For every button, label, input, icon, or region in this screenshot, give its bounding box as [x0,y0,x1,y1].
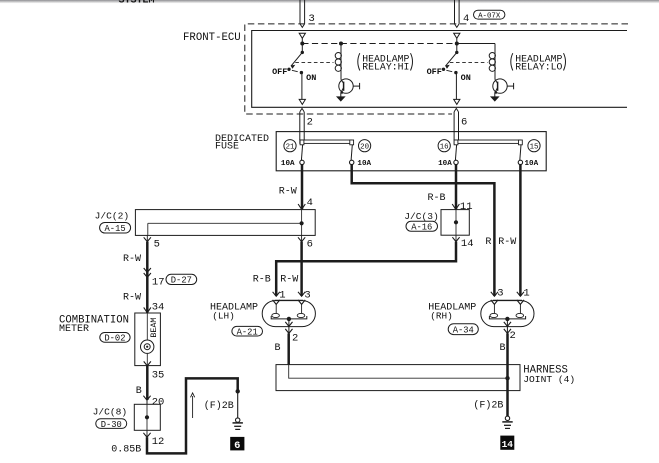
wire 6 ECU to fuse box (double line) [454,108,458,112]
svg-text:3: 3 [304,290,310,302]
svg-text:2: 2 [307,116,313,128]
svg-text:R-B: R-B [428,193,446,204]
fuse 15 10A [519,140,523,145]
inline connector 17 (D-27) double chevron [144,268,151,272]
connector label A-34 [448,324,478,335]
junction dot on internal rail [455,42,459,46]
wire R-B J/C(3) pin14 to headlamp LH pin1 [276,242,456,296]
fuse bus bar left (fuses 21-20) [300,140,352,143]
relay coil [340,44,342,80]
bulb bottom rail [489,316,525,319]
high-beam indicator lamp [141,340,154,353]
relay HEADLAMP RELAY:HI [272,33,412,104]
headlamp LH [262,292,315,354]
svg-text:FRONT-ECU: FRONT-ECU [183,32,241,44]
svg-text:D-02: D-02 [104,334,125,344]
ON contact [454,71,457,74]
fuse number circle 16 [438,140,450,152]
bulb top rail [275,299,304,301]
svg-text:J/C(3): J/C(3) [404,211,439,222]
fuse number circle 20 [359,140,371,152]
FRONT-ECU outer dashed box [245,24,628,114]
svg-text:(LH): (LH) [212,311,235,322]
switch output to terminal [301,73,303,100]
svg-text:6: 6 [461,116,467,128]
mechanical link to coil (dashed) [295,61,333,63]
wire R-W J/C(2) pin5 down [146,242,149,313]
junction dot at ground 6 drop [236,389,240,393]
current direction arrow [192,396,194,418]
switch output to terminal [455,73,457,100]
svg-text:4: 4 [463,13,469,25]
pin 35 exit chevron [144,361,151,366]
bulb bottom rail [271,316,307,319]
svg-text:15: 15 [530,143,539,151]
svg-text:(F)2B: (F)2B [473,400,503,412]
transistor [339,79,353,93]
switch pivot [456,44,458,53]
junction connector J/C(8) box [134,404,160,430]
filament right [301,304,303,313]
COMBINATION METER box [135,313,161,366]
svg-text:OFF: OFF [272,67,287,77]
svg-text:R-W: R-W [123,293,141,304]
svg-text:1: 1 [279,290,285,302]
wire R-B fuse16 to J/C(3) pin11 [455,165,458,210]
svg-text:METER: METER [59,324,89,335]
wire 3 from top (double line) [299,0,301,24]
connector label A-21 [232,326,263,336]
fuse 16 10A [454,140,458,145]
filament right [519,304,521,313]
harness joint internal wire [289,365,508,379]
svg-text:ON: ON [306,73,316,83]
junction connector J/C(3) box [441,210,469,236]
svg-text:ON: ON [461,73,471,83]
pin 34 entry chevron [144,307,151,312]
svg-text:J/C(8): J/C(8) [93,407,128,418]
connector label A-16 [406,221,438,231]
svg-text:3: 3 [497,288,503,300]
wire B meter to J/C(8) [146,366,149,400]
headlamp RH [481,292,534,354]
bulb common junction dot [287,317,291,321]
fuse number circle 15 [528,140,540,152]
fuse 20 10A [350,140,354,145]
svg-text:10A: 10A [357,160,371,168]
J/C(3) internal wire [455,210,457,236]
svg-text:14: 14 [461,238,474,250]
bulb common junction dot [505,317,509,321]
svg-text:J/C(2): J/C(2) [95,210,130,221]
relay output terminal (open triangle) [454,99,460,104]
connector label D-02 [100,333,130,343]
svg-text:A-15: A-15 [105,224,126,234]
svg-text:20: 20 [360,143,369,151]
connector label A-15 [100,223,131,234]
svg-text:B: B [136,386,142,397]
svg-text:10A: 10A [438,160,452,168]
svg-text:4: 4 [307,197,313,209]
wire R-W fuse15 to headlamp RH pin1 [519,165,522,296]
filament left [493,304,495,313]
RH pin 3 entry chevrons [491,292,498,297]
LH pin 3 entry chevrons [298,292,305,297]
svg-text:3: 3 [309,13,315,25]
svg-text:6: 6 [307,238,313,250]
svg-text:34: 34 [152,301,165,313]
bulb top rail [493,299,522,301]
ground number box 6 [230,437,244,451]
svg-text:D-30: D-30 [101,420,122,430]
svg-text:(RH): (RH) [430,311,453,322]
svg-text:16: 16 [440,143,449,151]
svg-text:10A: 10A [281,160,295,168]
pin 12 exit chevron [146,430,148,437]
transistor emitter to ground [340,93,342,97]
svg-text:D-27: D-27 [171,276,192,286]
svg-text:17: 17 [152,277,165,289]
harness joint junction dot [505,376,509,380]
wire 2 ECU to fuse box (double line) [300,108,304,112]
svg-text:14: 14 [502,439,514,450]
svg-text:RELAY:HI: RELAY:HI [362,61,409,72]
pin 11 entry chevron [452,204,459,209]
DEDICATED FUSE box [276,132,546,171]
svg-text:20: 20 [152,396,165,408]
filament left [275,304,277,313]
J/C(3) junction dot [454,220,458,224]
svg-text:SYSTEM: SYSTEM [119,0,155,6]
svg-text:R: R [485,237,491,248]
svg-text:2: 2 [292,332,298,344]
transistor base lead [353,85,359,87]
link dash between OFF and ON [446,70,452,71]
pin 5 exit chevron [146,235,148,241]
svg-text:35: 35 [152,369,165,381]
connector label D-30 [96,419,127,429]
LH pin 1 entry chevrons [273,292,280,297]
pin 2 exit chevrons [288,319,290,333]
transistor base lead [507,85,513,87]
FRONT-ECU inner solid box [252,31,627,108]
relay RELAY:HI input terminal (open triangle) [299,33,305,38]
headlamp RH bulb outline [481,301,534,327]
relay RELAY:LO input terminal (open triangle) [454,33,460,38]
junction dot on internal rail [300,42,304,46]
rail solid segment to LO relay coil [457,43,495,45]
fuse bus bar right (fuses 16-15) [454,140,520,143]
switch arm (points to OFF) [446,52,457,66]
svg-text:B: B [275,343,281,354]
wire 4 from top (double line) [454,0,456,24]
svg-text:5: 5 [154,238,160,250]
svg-text:R-W: R-W [498,237,516,248]
svg-text:A-21: A-21 [237,327,258,337]
svg-text:2: 2 [510,330,516,342]
svg-text:10A: 10A [525,160,539,168]
ground symbol 6 [236,418,240,422]
svg-text:A-16: A-16 [411,222,432,232]
pin 6 exit chevron [301,235,303,241]
ground (filled triangle) [337,97,345,101]
switch pivot [301,44,303,53]
wire B headlamp LH pin2 to harness joint [287,333,290,365]
svg-text:FUSE: FUSE [215,142,239,153]
meter internal wire out [146,353,148,365]
wire R fuse20 to headlamp RH pin3 [352,165,495,296]
svg-text:12: 12 [152,436,165,448]
svg-text:BEAM: BEAM [149,318,159,338]
switch arm (points to OFF) [291,52,302,66]
fuse number circle 21 [284,140,296,152]
internal rail (dash-dot) joining both relay feeds [302,43,457,45]
mechanical link to coil (dashed) [450,61,488,63]
svg-text:R-W: R-W [279,186,297,197]
svg-text:B: B [500,343,506,354]
junction dot at HI coil [339,42,343,46]
J/C(2) junction dot [300,221,304,225]
wire R-W J/C(2) pin6 to headlamp LH pin3 [300,242,303,296]
wire to ground 6 [237,391,239,418]
pin 20 entry chevron [143,396,150,401]
wire R-W fuse21 to J/C(2) pin4 [301,165,304,210]
ground number box 14 [500,436,514,450]
svg-text:R-B: R-B [253,274,271,285]
meter internal wire to beam indicator [146,313,148,340]
svg-text:1: 1 [523,288,529,300]
transistor emitter to ground [494,93,496,97]
junction connector J/C(2) box [135,210,315,236]
pin 4 entry chevron [298,204,305,209]
svg-text:R-W: R-W [123,254,141,265]
svg-text:0.85B: 0.85B [111,445,141,456]
svg-text:(F)2B: (F)2B [204,400,234,412]
ground (filled triangle) [491,97,499,101]
svg-text:A-07X: A-07X [478,12,501,20]
svg-text:11: 11 [460,201,473,213]
relay output terminal (open triangle) [299,99,305,104]
relay HEADLAMP RELAY:LO [427,33,566,104]
headlamp LH bulb outline [262,301,315,327]
RH pin 1 entry chevrons [517,292,524,297]
ON contact [300,71,303,74]
HARNESS JOINT (4) box [276,365,520,391]
ground symbol 14 [505,416,509,420]
svg-text:A-34: A-34 [453,325,474,335]
OFF contact [287,68,290,71]
fuse 21 10A [300,140,304,145]
pin 2 exit chevrons [506,319,508,333]
link dash between OFF and ON [292,70,298,71]
svg-text:RELAY:LO: RELAY:LO [515,61,562,72]
wire B headlamp RH pin2 to ground 14 [506,333,509,416]
J/C(8) internal wire [146,404,148,430]
svg-text:21: 21 [286,143,295,151]
OFF contact [442,68,445,71]
J/C(8) junction dot [145,415,149,419]
J/C(2) internal bus [148,222,302,224]
svg-text:OFF: OFF [427,67,442,77]
relay coil [494,44,496,80]
connector label A-07X [474,10,505,19]
svg-text:R-W: R-W [280,274,298,285]
svg-text:6: 6 [234,440,240,452]
wire 0.85B to ground 6 (routed) [147,378,238,453]
transistor [493,79,507,93]
pin 14 exit chevron [455,235,457,241]
svg-text:JOINT (4): JOINT (4) [523,374,575,385]
